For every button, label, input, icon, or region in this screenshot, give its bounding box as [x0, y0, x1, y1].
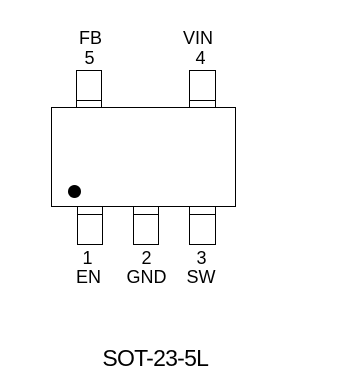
label SW (pin 3 name) [171, 268, 231, 286]
label 4 (pin number) [171, 49, 231, 67]
pin 1 lead (bottom-left) [77, 207, 103, 245]
pin 3 lead shoulder line [189, 214, 216, 215]
label 1 (pin number) [58, 249, 118, 267]
label FB (pin 5 name) [61, 29, 121, 47]
pin 3 lead (bottom-right) [189, 207, 216, 245]
label GND (pin 2 name) [117, 268, 177, 286]
pin 2 lead (bottom-middle) [133, 207, 159, 245]
package body SOT-23-5L outline [51, 107, 236, 207]
label 5 (pin number) [60, 49, 120, 67]
pin 4 lead (top-right) [189, 70, 216, 108]
pin 5 lead shoulder line [76, 100, 102, 101]
caption SOT-23-5L [0, 347, 311, 370]
pin 1 lead shoulder line [77, 214, 103, 215]
label 2 (pin number) [117, 249, 177, 267]
label 3 (pin number) [172, 249, 232, 267]
label VIN (pin 4 name) [168, 29, 228, 47]
pin 5 lead (top-left) [76, 70, 102, 108]
pin 1 indicator dot [68, 185, 81, 198]
label EN (pin 1 name) [59, 268, 119, 286]
pin 2 lead shoulder line [133, 214, 159, 215]
pin 4 lead shoulder line [189, 100, 216, 101]
